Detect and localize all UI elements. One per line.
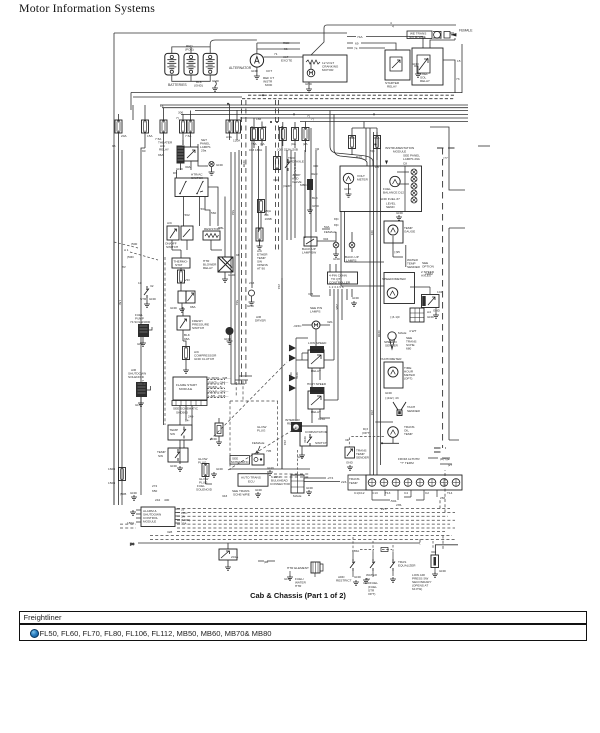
thermostat column fuses	[256, 200, 272, 250]
svg-text:GND: GND	[170, 464, 178, 468]
fuel gauge circle	[390, 176, 400, 186]
svg-text:166: 166	[256, 117, 261, 121]
HTR blower relay (dark box with X)	[218, 257, 233, 272]
svg-text:FEMALE: FEMALE	[252, 441, 264, 445]
wire: right bracket upper	[430, 127, 465, 190]
battery B2	[184, 53, 198, 75]
svg-text:50A: 50A	[324, 225, 330, 229]
svg-text:98: 98	[236, 253, 240, 257]
misc wire number labels	[118, 117, 381, 445]
svg-text:RELAY: RELAY	[159, 148, 169, 152]
see schematic box	[230, 456, 250, 465]
M blower motor	[312, 321, 320, 329]
svg-text:(500: (500	[131, 242, 137, 246]
svg-text:30(A/6—243—: 30(A/6—243—	[208, 390, 229, 394]
svg-text:96A: 96A	[158, 153, 164, 157]
svg-text:| 0|5 323A |20B: | 0|5 323A |20B	[277, 148, 298, 152]
resistor box	[203, 231, 220, 240]
svg-text:71: 71	[274, 52, 278, 56]
svg-text:T13: T13	[385, 491, 391, 495]
svg-text:MOD: MOD	[265, 83, 273, 87]
svg-text:C8: C8	[403, 162, 407, 166]
svg-text:227-: 227-	[381, 507, 387, 511]
thermostat box	[172, 258, 190, 268]
fuse 15A	[142, 120, 149, 133]
svg-text:328: 328	[167, 530, 172, 534]
fuse 7.5A	[160, 120, 167, 133]
relay contact heater	[184, 147, 198, 161]
svg-text:304: 304	[323, 237, 328, 241]
svg-text:73: 73	[456, 77, 460, 81]
wires below temp sw	[180, 418, 219, 464]
svg-text:C1|C12: C1|C12	[354, 491, 365, 495]
svg-text:20A: 20A	[121, 134, 127, 138]
svg-text:SEND: SEND	[386, 205, 395, 209]
svg-text:30-8/8—5—: 30-8/8—5—	[208, 385, 226, 389]
wire: left vert 122 dashes to bottom	[121, 150, 123, 496]
wire	[180, 268, 182, 291]
svg-text:315: 315	[370, 230, 374, 235]
svg-text:GND: GND	[284, 577, 292, 581]
female connector (top right)	[407, 31, 456, 39]
conn symbol	[252, 454, 264, 465]
dashed region boundary 1500	[114, 242, 158, 260]
trans temp sender	[345, 447, 355, 458]
solid bottom line 196	[138, 542, 420, 544]
page header text	[19, 1, 155, 16]
svg-text:GND: GND	[352, 296, 360, 300]
svg-text:SOLENOID: SOLENOID	[128, 375, 145, 379]
wire: bus 121.5	[300, 121, 468, 123]
svg-text:8|C: 8|C	[334, 217, 340, 221]
svg-text:561: 561	[235, 300, 239, 305]
ground: battery gnd	[212, 86, 218, 91]
fuel sol relay contact	[417, 55, 430, 73]
svg-text:GND: GND	[170, 306, 178, 310]
wire: right vertical 73	[461, 44, 463, 93]
svg-text:15: 15	[457, 59, 461, 63]
svg-text:GND: GND	[130, 491, 138, 495]
terminal strip left tag	[348, 475, 366, 490]
svg-text:RELAY: RELAY	[387, 85, 397, 89]
svg-text:(323H: (323H	[283, 184, 291, 188]
svg-text:69: 69	[355, 42, 359, 46]
wire: extra trunk verticals	[258, 146, 260, 232]
back-up lamp 1	[333, 242, 339, 248]
wire to lamps	[317, 229, 352, 242]
connector circles column	[411, 169, 417, 203]
M motor dark circle	[226, 327, 234, 335]
svg-text:A3A: A3A	[226, 135, 233, 139]
wire: trunk to instrumentation, rounded corner	[330, 111, 381, 476]
svg-text:TEMP: TEMP	[404, 432, 413, 436]
dashed bus lines	[177, 508, 450, 510]
water temp sender box	[405, 245, 407, 267]
svg-text:29a: 29a	[201, 149, 206, 153]
dashed box auto trans	[230, 401, 278, 470]
wire: alternator top to RED wire	[242, 40, 300, 54]
lamp: panel light	[209, 161, 214, 166]
svg-text:(5)8/7|—244—: (5)8/7|—244—	[208, 381, 229, 385]
svg-text:216: 216	[277, 284, 281, 289]
svg-text:315E: 315E	[295, 372, 299, 379]
two spd axle switch	[273, 156, 304, 188]
svg-text:|96: |96	[130, 542, 135, 546]
dashed boundary A/C section x=165	[164, 257, 166, 425]
connector block	[410, 308, 424, 322]
wire: 96 label wire	[113, 150, 115, 505]
svg-text:SW: SW	[158, 454, 163, 458]
svg-text:GND: GND	[344, 187, 352, 191]
wire: mid verticals	[218, 100, 295, 469]
wire: left border inner	[131, 93, 133, 121]
svg-text:TACHOMETER: TACHOMETER	[380, 357, 402, 361]
svg-text:STR: STR	[140, 297, 147, 301]
svg-text:562: 562	[231, 210, 235, 215]
ground: starter relay	[414, 66, 418, 72]
svg-text:98A: 98A	[190, 305, 196, 309]
svg-text:RELAY: RELAY	[311, 410, 321, 414]
wire stubs fuse row	[119, 104, 378, 160]
svg-text:(OPT): (OPT)	[362, 431, 370, 435]
back-up lamp 2	[349, 242, 355, 248]
battery B1	[165, 53, 179, 75]
ground: motor	[308, 82, 310, 87]
alternator circle A	[250, 54, 263, 67]
svg-text:T14: T14	[447, 491, 453, 495]
wire: alternator right 71	[264, 56, 303, 58]
fuse-like vio component	[178, 270, 185, 283]
low air press component	[431, 555, 439, 568]
svg-text:4: 4	[392, 25, 394, 29]
svg-text:GND: GND	[305, 82, 313, 86]
svg-text:8|C: 8|C	[370, 149, 376, 153]
fuse pair right b	[259, 128, 266, 141]
dashed corner right	[420, 470, 445, 549]
svg-text:LAMPS: LAMPS	[310, 310, 321, 314]
svg-text:LAMP SW: LAMP SW	[302, 251, 316, 255]
fuse 120A	[234, 120, 241, 133]
vertical dashed drops to switches	[353, 537, 433, 552]
svg-text:150: 150	[118, 300, 122, 305]
svg-text:GNT: GNT	[137, 342, 144, 346]
svg-text:SW: SW	[170, 432, 175, 436]
wire: right bracket lower	[449, 228, 465, 440]
svg-text:32: 32	[150, 284, 154, 288]
svg-text:90: 90	[142, 149, 146, 153]
svg-text:"T" TERM: "T" TERM	[400, 461, 414, 465]
wires below terminal strip	[372, 490, 437, 500]
svg-text:235-: 235-	[396, 503, 402, 507]
commutator box	[300, 426, 327, 446]
svg-text:343: 343	[222, 494, 227, 498]
svg-text:|2A: |2A	[303, 142, 309, 146]
svg-text:RELAY: RELAY	[287, 422, 297, 426]
glow plug 2	[202, 464, 209, 477]
fuse 7.5A pair b	[187, 120, 194, 133]
svg-text:315A: 315A	[318, 417, 326, 421]
svg-text:RESTRICT: RESTRICT	[336, 579, 352, 583]
svg-text:GND: GND	[412, 62, 420, 66]
fuse 33B	[349, 136, 356, 149]
svg-text:| |3-1|0: | |3-1|0	[390, 315, 400, 319]
dashed diagonal 1	[210, 362, 287, 440]
fuel pump solenoid (dark)	[138, 324, 149, 337]
interior relay dark	[291, 422, 302, 432]
svg-text:SENDER: SENDER	[407, 409, 421, 413]
svg-text:RESISTOR: RESISTOR	[204, 227, 221, 231]
6-way connector grid	[291, 475, 304, 493]
svg-text:METER: METER	[357, 178, 369, 182]
wire: dashed bus 95	[248, 94, 455, 96]
svg-text:RELAY: RELAY	[311, 369, 321, 373]
battery B3	[203, 53, 217, 75]
small dark box	[307, 179, 313, 190]
ground below	[181, 303, 183, 307]
svg-text:(GND): (GND)	[194, 84, 203, 88]
glow plug dashed component	[215, 423, 223, 436]
temp gauge circle	[388, 225, 398, 235]
svg-text:GND: GND	[312, 204, 320, 208]
schematic bar	[172, 401, 207, 406]
svg-text:GND: GND	[251, 69, 259, 73]
wire: left steps bottom	[119, 467, 123, 505]
svg-text:MOTOR: MOTOR	[322, 68, 334, 72]
svg-text:STAT: STAT	[175, 263, 183, 267]
small fuse col	[274, 157, 281, 170]
alarm module box	[141, 507, 175, 527]
A/C compressor clutch	[183, 347, 190, 360]
wire: feed verticals 300-310	[305, 128, 316, 296]
svg-text:98A: 98A	[184, 337, 190, 341]
temp gauge box	[384, 221, 403, 243]
starter relay contact	[390, 57, 402, 71]
svg-text:D13: D13	[356, 155, 362, 159]
junction dots on bus	[262, 94, 264, 96]
svg-text:560: 560	[211, 211, 216, 215]
svg-text:GND: GND	[176, 167, 184, 171]
svg-text:HTR: HTR	[295, 584, 302, 588]
wire: computer box to 6-way	[297, 450, 299, 475]
svg-text:CKT: CKT	[266, 69, 272, 73]
wire: bus 105	[133, 97, 468, 105]
svg-text:32A: 32A	[181, 522, 187, 526]
svg-text:220M: 220M	[425, 272, 433, 276]
wire: 74	[347, 47, 385, 49]
svg-text:BATTERIES: BATTERIES	[168, 83, 187, 87]
svg-text:GND: GND	[346, 461, 354, 465]
svg-text:GND: GND	[224, 337, 232, 341]
svg-text:|3A: |3A	[260, 142, 266, 146]
svg-text:SWITCH: SWITCH	[192, 326, 204, 330]
svg-text:30A: 30A	[185, 165, 191, 169]
svg-text:LOW SPEED: LOW SPEED	[308, 341, 327, 345]
svg-text:SENDER: SENDER	[385, 344, 399, 348]
fuse 12A	[302, 128, 309, 141]
ground: lamp gnd	[211, 167, 213, 170]
svg-text:ECU: ECU	[248, 480, 255, 484]
wire: fuel relay to right vertical 15	[430, 38, 455, 93]
resistor in motor box	[306, 60, 320, 64]
wire: 216 long vertical	[281, 278, 283, 469]
flame start module box	[173, 377, 207, 400]
svg-text:GND: GND	[433, 309, 441, 313]
fuse 10A right	[292, 128, 299, 141]
svg-text:HIGH SPEED: HIGH SPEED	[307, 382, 327, 386]
svg-text:GND: GND	[247, 304, 255, 308]
svg-text:(66: (66	[262, 125, 267, 129]
svg-text:GND: GND	[216, 163, 224, 167]
wire: bus 118	[240, 117, 468, 119]
svg-text:|77: |77	[444, 156, 449, 160]
4-pin conn controller box	[328, 272, 358, 284]
svg-text:15A: 15A	[147, 134, 153, 138]
svg-text:VIO: VIO	[185, 278, 191, 282]
A/C on/off switch box	[167, 226, 179, 240]
wire: 69	[347, 43, 396, 50]
svg-text:FEMALE: FEMALE	[324, 230, 336, 234]
svg-text:GAUGE: GAUGE	[404, 230, 415, 234]
svg-text:GND: GND	[149, 297, 157, 301]
wire: controller pins down	[311, 264, 352, 340]
fuse 20A left	[115, 120, 122, 133]
svg-text:272: 272	[152, 484, 157, 488]
svg-text:GND: GND	[306, 486, 314, 490]
wire: bus 107.5	[162, 107, 468, 109]
196 arrow to htr element	[258, 560, 275, 562]
htr/ac switch box	[175, 178, 208, 197]
svg-text:160: 160	[141, 380, 145, 385]
svg-text:561: 561	[201, 207, 206, 211]
svg-text:SPEEDOMETER: SPEEDOMETER	[382, 277, 406, 281]
svg-text:-315C: -315C	[293, 324, 302, 328]
svg-text:74: 74	[354, 47, 358, 51]
right chevrons 315	[289, 345, 295, 391]
temp sw 2nd box	[168, 448, 188, 462]
wire: left vert 118	[118, 142, 120, 467]
pin rows right of module	[207, 380, 225, 398]
svg-text:C4: C4	[404, 491, 408, 495]
svg-text:GND FUEL #7: GND FUEL #7	[380, 197, 400, 201]
svg-text:680: 680	[406, 347, 411, 351]
svg-text:7): 7)	[176, 116, 179, 120]
wire: battery top bus	[172, 47, 210, 54]
wire: volt meter box feeds down	[341, 211, 384, 286]
svg-text:COMMUTATOR: COMMUTATOR	[305, 430, 328, 434]
tick right	[478, 145, 490, 147]
svg-text:| |95: | |95	[394, 250, 400, 254]
terminal circles	[368, 479, 460, 487]
wire: vert 141	[141, 148, 145, 495]
svg-text:SCHEMATIC: SCHEMATIC	[231, 460, 250, 464]
STR switch	[144, 286, 149, 298]
svg-text:MALE: MALE	[293, 494, 301, 498]
wires 274/223	[304, 478, 340, 482]
svg-text:MALE: MALE	[398, 331, 406, 335]
svg-text:M: M	[228, 329, 231, 334]
svg-text:GND: GND	[333, 257, 341, 261]
svg-text:216: 216	[283, 440, 287, 445]
wire: bus 92.5	[131, 92, 462, 94]
svg-text:GND: GND	[439, 569, 447, 573]
svg-text:HTR ELEMENT: HTR ELEMENT	[287, 566, 309, 570]
svg-text:120A: 120A	[233, 139, 241, 143]
temp sw box	[168, 425, 192, 440]
svg-text:233: 233	[249, 281, 254, 285]
glow plug solenoid box bottom	[219, 549, 237, 560]
dashed vertical from module pins	[236, 381, 243, 401]
auto trans ECU box	[238, 474, 268, 487]
svg-text:7): 7)	[307, 114, 310, 118]
svg-text:306: 306	[178, 111, 183, 115]
svg-text:GND: GND	[212, 79, 220, 83]
dashes with inline component	[360, 549, 392, 551]
svg-text:GNT: GNT	[135, 403, 142, 407]
svg-text:33B: 33B	[349, 136, 355, 140]
svg-text:RED: RED	[283, 41, 290, 45]
svg-text:L-8/8—(91)8—: L-8/8—(91)8—	[208, 394, 229, 398]
svg-text:266: 266	[440, 496, 445, 500]
svg-text:ALTERNATOR: ALTERNATOR	[229, 66, 252, 70]
module pins right	[175, 509, 180, 523]
svg-text:BLK: BLK	[312, 196, 319, 200]
cranking motor box	[303, 55, 347, 82]
svg-text:GND: GND	[297, 455, 305, 459]
wire: vert 163	[163, 152, 165, 425]
fuse 16A	[374, 136, 381, 149]
fuse gnd small column at 300-318	[293, 160, 320, 213]
svg-text:GND: GND	[216, 467, 224, 471]
wire: module down	[180, 406, 192, 426]
svg-text:GND: GND	[267, 466, 275, 470]
A/C switch box 2	[181, 226, 193, 240]
switch: add restrict	[350, 559, 355, 571]
trans oil temp	[375, 422, 399, 443]
svg-text:A/C: A/C	[167, 221, 173, 225]
svg-text:|27: |27	[448, 463, 453, 467]
svg-text:GND CLUTCH: GND CLUTCH	[194, 357, 214, 361]
junction dots bus	[270, 121, 272, 123]
svg-text:MBCD: MBCD	[300, 183, 310, 187]
svg-text:OPTION: OPTION	[422, 265, 434, 269]
motor M circle	[307, 69, 315, 77]
wire: RED POS feed from B3 up	[210, 40, 242, 47]
svg-text:300: 300	[313, 164, 318, 168]
svg-text:AT 90: AT 90	[257, 267, 265, 271]
svg-text:160B: 160B	[108, 467, 115, 471]
svg-text:8V: 8V	[122, 265, 127, 269]
svg-text:| |242 | 43: | |242 | 43	[385, 396, 399, 400]
svg-text:C13: C13	[372, 491, 378, 495]
svg-text:RELAY: RELAY	[203, 266, 213, 270]
svg-text:315: 315	[308, 292, 313, 296]
svg-text:(POS): (POS)	[185, 48, 194, 52]
svg-text:303: 303	[431, 550, 436, 554]
module pins left	[136, 510, 141, 522]
svg-text:242: 242	[370, 410, 374, 415]
svg-text:DRYER: DRYER	[255, 319, 267, 323]
svg-text:104: 104	[437, 290, 442, 294]
fuse 7.5A pair a	[180, 120, 187, 133]
volt meter circle	[343, 173, 353, 183]
heater A/C relay (dark box)	[177, 146, 185, 164]
wire: relay feeds	[181, 140, 209, 170]
wires between relays	[296, 329, 338, 423]
fuse 323A	[279, 128, 286, 141]
svg-text:FEMALE: FEMALE	[459, 29, 473, 33]
svg-text:033 160A: 033 160A	[249, 148, 263, 152]
svg-text:SENDER: SENDER	[407, 265, 421, 269]
